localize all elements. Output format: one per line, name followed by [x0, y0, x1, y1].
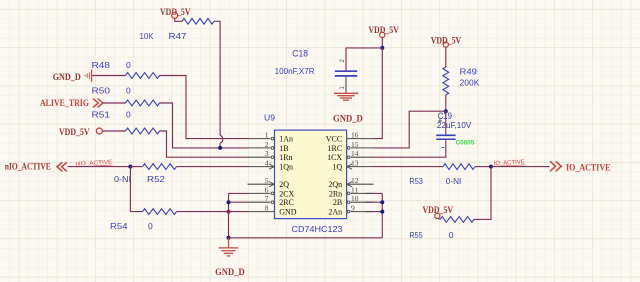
svg-text:2RC: 2RC — [279, 198, 294, 207]
resistor R50 — [126, 100, 160, 106]
svg-text:R48: R48 — [92, 60, 111, 70]
wire right GND branch to pin 10 — [365, 201, 382, 203]
svg-text:R47: R47 — [169, 31, 187, 41]
wire GND rail to pin 8 — [229, 211, 248, 213]
wire pin 13 to R53 — [373, 166, 443, 168]
svg-text:11: 11 — [351, 185, 358, 194]
svg-text:IO_ACTIVE: IO_ACTIVE — [566, 164, 611, 174]
svg-text:R50: R50 — [92, 86, 111, 96]
wire junction down to R55 — [474, 167, 491, 220]
wire R51 to pin 3 — [160, 131, 248, 157]
wire R54 to GND rail — [177, 211, 229, 213]
wire C19 to pin 14 — [373, 140, 445, 157]
wire VDD_5V to R49 — [445, 47, 447, 67]
svg-text:10K: 10K — [140, 31, 154, 41]
junction GND rail/pin8 — [227, 210, 231, 214]
wire ALIVE_TRIG to R50 — [103, 102, 126, 104]
pin 4 (1Qn) — [248, 159, 293, 172]
pin 1 (1An) — [248, 131, 293, 144]
resistor R52 — [143, 164, 177, 170]
resistor R55 — [440, 217, 474, 223]
wire VDD_5V to R55 — [438, 218, 441, 219]
wire right GND branch vertical — [381, 193, 383, 237]
svg-text:1RC: 1RC — [328, 144, 343, 153]
svg-text:12: 12 — [351, 176, 359, 185]
svg-text:R51: R51 — [92, 110, 111, 120]
svg-text:1CX: 1CX — [327, 153, 342, 162]
wire R48 to pin 1 — [160, 76, 248, 139]
wire VDD_5V to R51 — [102, 130, 125, 132]
svg-text:VCC: VCC — [326, 135, 342, 144]
svg-text:GND_D: GND_D — [333, 114, 363, 124]
svg-text:2Q: 2Q — [279, 180, 289, 189]
svg-text:2An: 2An — [328, 208, 342, 217]
svg-text:200K: 200K — [460, 78, 480, 88]
pin 15 (1RC) — [328, 140, 374, 153]
port ALIVE_TRIG — [40, 99, 103, 109]
power port VDD_5V (R51) — [59, 127, 102, 137]
pin 9 (2An) — [328, 204, 373, 217]
wire GND rail to pin 6 — [229, 192, 248, 194]
svg-text:3: 3 — [265, 149, 269, 158]
wire junction to C18 — [346, 48, 382, 71]
wire junction to pin 16 — [373, 48, 382, 139]
pin 2 (1B) — [248, 140, 289, 153]
wire junction to port IO_ACTIVE — [491, 166, 550, 168]
svg-text:1Qn: 1Qn — [279, 163, 293, 172]
wire GND rail vertical — [228, 193, 230, 237]
svg-text:VDD_5V: VDD_5V — [59, 127, 90, 137]
wire GND rail bottom run — [229, 237, 383, 239]
svg-text:13: 13 — [351, 159, 359, 168]
wire R47 down to pin 2 with hop — [214, 21, 223, 148]
svg-text:15: 15 — [351, 140, 359, 149]
port IO_ACTIVE — [550, 161, 611, 173]
wire GND rail to pin 7 — [229, 201, 248, 203]
wire junction to R52 — [130, 166, 142, 168]
svg-text:ALIVE_TRIG: ALIVE_TRIG — [40, 99, 90, 109]
pin 8 (GND) — [248, 204, 297, 217]
svg-text:1: 1 — [265, 131, 269, 140]
op-amp/IC U9 body — [275, 130, 347, 219]
svg-text:4: 4 — [265, 159, 269, 168]
svg-text:0-NI: 0-NI — [446, 176, 462, 186]
svg-text:R49: R49 — [460, 67, 478, 77]
svg-text:nIO_ACTIVE: nIO_ACTIVE — [5, 163, 51, 173]
svg-text:1Q: 1Q — [332, 163, 342, 172]
pin 3 (1Rn) — [248, 149, 293, 162]
pin 12 (2Qn) — [328, 176, 373, 189]
capacitor C18 — [335, 71, 357, 93]
wire junction to C19 — [445, 111, 447, 134]
junction GND rail bottom — [227, 236, 231, 240]
pin 16 (VCC) — [326, 131, 374, 144]
svg-text:CD74HC123: CD74HC123 — [292, 224, 343, 234]
svg-text:2CX: 2CX — [279, 189, 294, 198]
svg-text:0: 0 — [126, 86, 131, 96]
ground GND_D (bottom) — [215, 238, 245, 277]
svg-text:0: 0 — [449, 230, 454, 240]
svg-text:C18: C18 — [292, 48, 308, 58]
svg-text:1An: 1An — [279, 135, 293, 144]
resistor R54 — [143, 209, 177, 215]
svg-text:R55: R55 — [409, 230, 423, 240]
svg-text:10: 10 — [351, 194, 359, 203]
svg-text:U9: U9 — [264, 112, 275, 122]
pin 11 (2Rn) — [329, 185, 374, 198]
svg-text:8: 8 — [265, 204, 269, 213]
power port VDD_5V (R47) — [160, 7, 191, 18]
wire GND_D to R48 — [92, 75, 125, 77]
pin number 1 dash (C19) — [441, 147, 444, 149]
svg-text:14: 14 — [351, 149, 359, 158]
wire VDD_5V down to junction (C18) — [381, 38, 383, 48]
svg-text:6: 6 — [265, 185, 269, 194]
resistor R53 — [443, 164, 475, 170]
svg-text:R54: R54 — [110, 221, 128, 231]
junction nIO/R52/R54 — [128, 165, 132, 169]
ground GND_D (under C18) — [333, 93, 363, 123]
junction right rail/pin10 — [380, 200, 384, 204]
svg-text:VDD_5V: VDD_5V — [431, 35, 462, 45]
wire right GND branch to pin 11 — [365, 192, 382, 194]
wire R53 to junction — [475, 166, 491, 168]
port nIO_ACTIVE — [5, 162, 67, 172]
svg-text:GND_D: GND_D — [53, 72, 81, 82]
wire R50 to pin 2 — [160, 103, 248, 148]
svg-text:1Rn: 1Rn — [279, 153, 292, 162]
pin 5 (2Q) — [248, 176, 290, 189]
svg-text:C0805: C0805 — [456, 141, 475, 147]
junction R47/pin2 — [218, 146, 222, 150]
wire nIO_ACTIVE to junction — [68, 166, 131, 168]
power port VDD_5V (C18) — [368, 25, 399, 37]
svg-text:R52: R52 — [147, 174, 165, 184]
junction GND rail/pin7 — [227, 200, 231, 204]
pin 14 (1CX) — [327, 149, 374, 162]
resistor R49 — [443, 67, 449, 95]
power port VDD_5V (R49) — [431, 35, 462, 47]
svg-text:5: 5 — [265, 176, 269, 185]
wire R52 to pin 4 — [177, 166, 248, 168]
svg-text:1B: 1B — [279, 144, 288, 153]
wire R49 to junction — [445, 95, 447, 111]
pin 6 (2CX) — [248, 185, 295, 198]
wire junction down to R54 — [130, 167, 142, 212]
polarity + (C19) — [438, 119, 442, 123]
svg-text:2Rn: 2Rn — [329, 189, 342, 198]
wire VDD_5V to R47 — [175, 18, 182, 21]
svg-text:0-NI: 0-NI — [114, 174, 131, 184]
capacitor C19 — [436, 135, 455, 139]
svg-text:2: 2 — [265, 140, 269, 149]
svg-text:0: 0 — [126, 60, 131, 70]
power port GND_D (left bar symbol) — [53, 70, 92, 82]
resistor R51 — [126, 128, 160, 134]
svg-text:9: 9 — [351, 204, 355, 213]
svg-text:7: 7 — [265, 194, 269, 203]
pin 10 (2B) — [333, 194, 374, 207]
svg-text:2Qn: 2Qn — [328, 180, 342, 189]
resistor R48 — [126, 73, 160, 79]
junction R53/IO_ACTIVE/R55 — [489, 165, 493, 169]
junction R49/C19/pin15 — [444, 109, 448, 113]
svg-text:GND: GND — [279, 208, 297, 217]
junction right rail/pin9 — [380, 210, 384, 214]
svg-text:R53: R53 — [409, 176, 423, 186]
junction VDD/C18 — [380, 46, 384, 50]
wire right GND branch to pin 9 — [365, 211, 382, 213]
svg-text:0: 0 — [148, 221, 153, 231]
wire junction to pin 15 — [373, 111, 445, 148]
pin 13 (1Q) — [332, 159, 373, 172]
svg-text:0: 0 — [126, 110, 131, 120]
svg-text:2B: 2B — [333, 198, 342, 207]
svg-text:VDD_5V: VDD_5V — [368, 25, 399, 35]
svg-text:16: 16 — [351, 131, 359, 140]
power port VDD_5V (R55) — [423, 205, 454, 218]
svg-text:GND_D: GND_D — [215, 267, 245, 277]
resistor R47 — [182, 18, 214, 24]
svg-text:100nF,X7R: 100nF,X7R — [275, 66, 315, 76]
svg-text:22uF,10V: 22uF,10V — [437, 120, 472, 130]
pin 7 (2RC) — [248, 194, 294, 207]
